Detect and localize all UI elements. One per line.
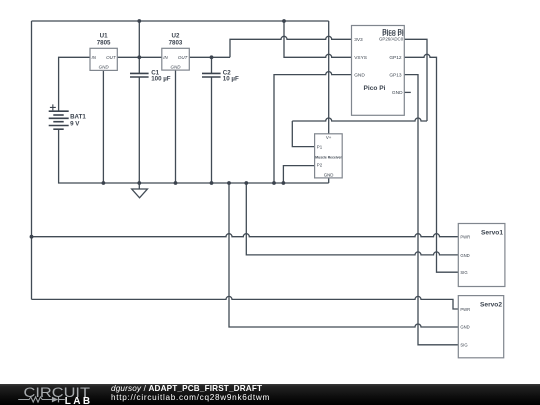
wire Pico GP12 to Servo1 SIG [404,54,458,272]
wire top 5V rail [32,20,329,22]
wire ground bus to Servo2 GND [229,183,458,327]
svg-text:SIG: SIG [460,270,467,275]
svg-text:GND: GND [354,72,365,78]
svg-text:GND: GND [460,325,469,330]
wire ground bus to Servo1 GND [246,183,458,255]
wire bottom frame to Servo2 PWR [32,296,459,309]
wire 5V to Pico VSYS [284,21,352,57]
svg-text:PWR: PWR [460,235,470,240]
wire 3.3V to Pico 3V3 [230,36,352,57]
microcontroller U3 Pico Pi [352,26,405,116]
capacitor C1 [130,73,149,77]
wire U1 IN to battery [59,57,90,111]
regulator U2 [162,33,190,71]
svg-text:GND: GND [392,90,403,96]
wire ground to Pico GND [274,72,352,183]
wire Pico GP26 to muscle receiver P1 [292,39,427,146]
capacitor C2 [202,73,221,77]
servo M2 Servo2 [458,296,503,358]
svg-text:10 µF: 10 µF [223,75,239,82]
svg-text:GND: GND [99,65,110,70]
wire C2 vertical [211,57,213,183]
regulator U1 [90,33,117,71]
svg-text:BAT1: BAT1 [70,114,86,121]
svg-text:http://circuitlab.com/cq28w9nk: http://circuitlab.com/cq28w9nk6dtwm [111,393,270,402]
svg-text:LAB: LAB [65,396,93,405]
svg-text:Servo2: Servo2 [480,302,502,309]
battery BAT1 [49,104,69,129]
wire muscle receiver P2 to ground bus [283,166,314,183]
svg-text:IN: IN [163,55,168,60]
svg-text:7805: 7805 [97,40,111,47]
svg-text:V+: V+ [326,135,332,140]
CircuitLab logo resistor-diode glyph and LAB [18,397,65,402]
svg-text:U1: U1 [100,33,108,40]
wire U2 OUT to C2 node [189,56,230,58]
svg-text:Muscle Receiver: Muscle Receiver [315,155,342,159]
wire U1 OUT to U2 IN [117,56,162,58]
svg-text:PWR: PWR [460,307,470,312]
wire U1 GND down [102,70,104,183]
svg-text:GP12: GP12 [389,55,402,61]
wire muscle receiver GND to ground bus [328,178,330,183]
svg-text:VSYS: VSYS [354,55,367,61]
svg-text:P2: P2 [317,162,323,167]
svg-text:SIG: SIG [460,343,467,348]
wire 5V vertical through C1 [138,21,140,183]
svg-text:7803: 7803 [169,40,183,47]
ground [132,183,148,198]
wire left frame rail [31,21,33,299]
svg-text:U2: U2 [172,33,180,40]
svg-text:IN: IN [92,55,97,60]
svg-text:3V3: 3V3 [354,37,363,43]
svg-text:9 V: 9 V [70,121,80,128]
svg-text:GND: GND [171,65,182,70]
wire 5V to muscle receiver V+ [328,21,330,134]
muscle receiver module [315,134,343,178]
svg-text:OUT: OUT [106,55,117,60]
wire 5V frame to Servo1 PWR [32,234,459,237]
servo M1 Servo1 [458,224,505,287]
svg-text:P1: P1 [317,144,323,149]
svg-text:Servo1: Servo1 [481,230,503,237]
node junction dots [30,19,286,239]
svg-text:GP13: GP13 [389,72,402,78]
svg-text:GND: GND [324,172,334,177]
svg-text:OUT: OUT [178,55,189,60]
wire battery minus to ground bus [59,129,329,183]
svg-text:Pico Pi: Pico Pi [364,85,386,92]
footer bar [0,384,540,405]
svg-text:GP26/ADC0: GP26/ADC0 [379,36,404,41]
wire Pico GP13 to Servo2 SIG [404,75,458,345]
svg-text:100 µF: 100 µF [151,75,171,82]
wire Pico right GND stub [404,91,411,93]
svg-text:GND: GND [460,253,469,258]
wire U2 GND down [175,70,177,183]
